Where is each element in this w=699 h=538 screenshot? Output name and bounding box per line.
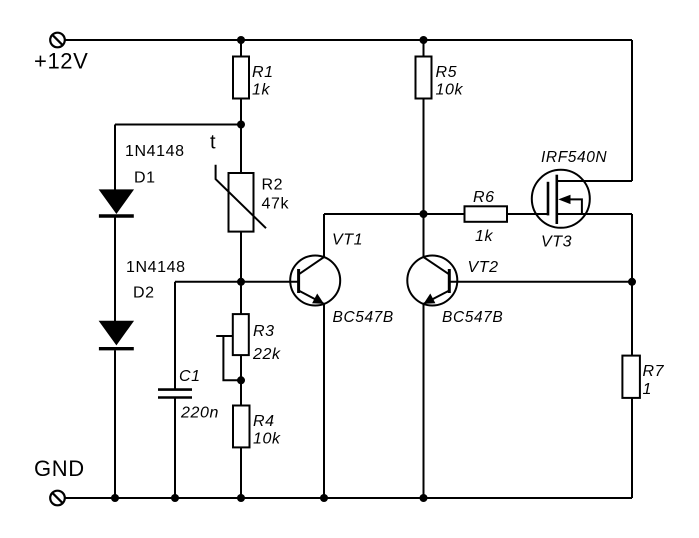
label D1 (125, 143, 185, 187)
svg-text:VT3: VT3 (541, 234, 572, 251)
label R7 value (643, 363, 665, 398)
node base row / divider (237, 278, 245, 286)
wire VT1 emitter to bottom rail (323, 304, 325, 498)
svg-text:1N4148: 1N4148 (125, 143, 185, 160)
thermistor R2 (216, 165, 266, 232)
svg-text:+12V: +12V (34, 49, 88, 74)
terminal +12V (50, 33, 65, 48)
label R5 value (436, 64, 464, 99)
wire D2 to bottom rail (114, 350, 116, 498)
capacitor C1 (158, 390, 192, 398)
node top rail / R5 (420, 36, 428, 44)
wire right rail upper (to VT3 drain) (631, 40, 633, 181)
wire R2 to R3 (240, 232, 242, 315)
label R1 value (252, 64, 274, 99)
wire divider column top (rail to R1) (240, 40, 242, 57)
transistor VT2 (407, 256, 457, 306)
label D2 (126, 259, 186, 302)
wire D1 to D2 (114, 218, 116, 322)
wire R5 to gate row (423, 99, 425, 215)
svg-text:22k: 22k (252, 346, 281, 363)
wire C1 top (174, 282, 176, 390)
node R3 wiper (237, 376, 245, 384)
resistor R6 (465, 206, 508, 222)
svg-text:10k: 10k (253, 431, 281, 448)
resistor R5 (416, 57, 432, 99)
svg-text:VT1: VT1 (332, 232, 363, 249)
resistor R1 (233, 57, 249, 99)
wire R4 to bottom rail (240, 447, 242, 498)
wire C1 bottom (174, 398, 176, 499)
svg-text:VT2: VT2 (468, 259, 499, 276)
terminal GND (50, 491, 65, 506)
svg-text:R3: R3 (253, 323, 275, 340)
svg-text:10k: 10k (436, 82, 464, 99)
node top rail / R1 (237, 36, 245, 44)
svg-text:R6: R6 (473, 189, 495, 206)
wire R5 column top (rail to R5) (423, 40, 425, 57)
svg-text:GND: GND (34, 456, 85, 481)
wire VT2 base row (base to R7 node) (449, 281, 632, 283)
transistor VT1 (290, 256, 340, 306)
wire diode branch horizontal (115, 124, 241, 126)
svg-text:BC547B: BC547B (333, 309, 394, 326)
node bottom rail / diodes (111, 494, 119, 502)
svg-text:D1: D1 (134, 170, 156, 187)
wire R1 to R2 (240, 99, 242, 174)
resistor R4 (233, 406, 250, 448)
wire VT2 emitter to bottom rail (423, 304, 425, 498)
svg-text:220n: 220n (180, 405, 219, 422)
svg-text:47k: 47k (262, 196, 290, 213)
wire VT1 collector (323, 214, 325, 257)
svg-text:BC547B: BC547B (442, 309, 503, 326)
svg-text:1k: 1k (252, 82, 270, 99)
node bottom rail / C1 (171, 494, 179, 502)
node VT2 base / R7 (628, 278, 636, 286)
wire right rail lower (source to R7) (631, 214, 633, 356)
label R6 value (473, 189, 495, 245)
wire VT3 drain lead (557, 180, 632, 182)
wire bottom GND rail (65, 497, 632, 499)
diode D1 (99, 190, 134, 216)
diode D2 (99, 321, 134, 349)
svg-text:1: 1 (643, 381, 653, 398)
node gate row / R5 (420, 210, 428, 218)
wire diode column to D1 (114, 125, 116, 191)
label R2 value (262, 177, 290, 213)
svg-text:1N4148: 1N4148 (126, 259, 186, 276)
wire R3 to R4 (240, 355, 242, 405)
mosfet VT3 (532, 170, 590, 228)
svg-text:1k: 1k (475, 228, 493, 245)
resistor R7 (622, 356, 640, 398)
label C1 value (179, 368, 219, 422)
svg-text:D2: D2 (133, 285, 155, 302)
node bottom rail / VT2 emitter (420, 494, 428, 502)
node bottom rail / VT1 emitter (320, 494, 328, 502)
trimmer R3 (216, 314, 249, 380)
wire gate row left (VT1 collector to R6) (324, 213, 465, 215)
svg-text:C1: C1 (179, 368, 201, 385)
wire R6 to VT3 gate (507, 213, 548, 215)
wire top +12V rail (65, 39, 632, 41)
svg-text:R5: R5 (436, 64, 458, 81)
label R4 value (253, 413, 281, 448)
node diode branch / R1-R2 (237, 121, 245, 129)
svg-text:R4: R4 (253, 413, 275, 430)
svg-text:t: t (210, 132, 216, 154)
svg-text:R1: R1 (252, 64, 274, 81)
label R3 value (252, 323, 281, 363)
svg-text:R2: R2 (262, 177, 284, 194)
wire VT3 source lead (557, 213, 632, 215)
svg-text:R7: R7 (643, 363, 665, 380)
node bottom rail / R4 (237, 494, 245, 502)
wire VT2 collector (423, 214, 425, 257)
wire R7 to bottom rail (631, 398, 633, 498)
svg-text:IRF540N: IRF540N (541, 149, 607, 166)
wire base row VT1 (C1 top to VT1 base) (175, 281, 299, 283)
